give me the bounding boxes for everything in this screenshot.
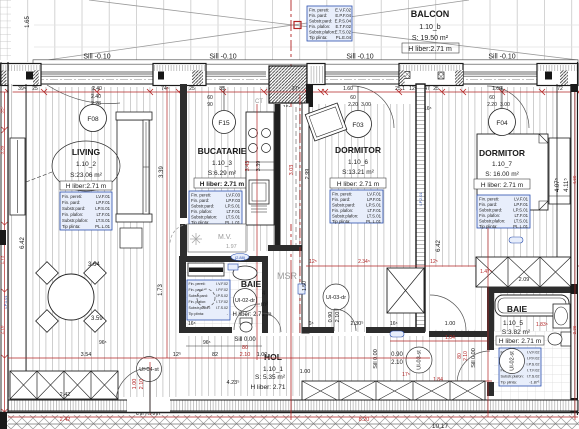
left edge neighbour stubs	[0, 230, 6, 245]
svg-text:6.42: 6.42	[20, 237, 26, 249]
svg-text:74⁵: 74⁵	[161, 86, 169, 92]
svg-text:I.T.F.02: I.T.F.02	[216, 300, 228, 304]
toilet baie left	[240, 318, 252, 324]
svg-text:3.39: 3.39	[256, 161, 262, 172]
living labels	[60, 147, 112, 190]
svg-text:Fin. plafon:: Fin. plafon:	[191, 209, 212, 214]
blue tag baie5 wall	[509, 237, 523, 243]
svg-text:72: 72	[557, 86, 563, 92]
svg-text:10.17: 10.17	[432, 423, 449, 429]
svg-text:Fin. pard:: Fin. pard:	[479, 202, 497, 207]
svg-text:1.00: 1.00	[257, 352, 268, 358]
left red dim chain	[2, 92, 8, 420]
svg-text:Substr.pard:: Substr.pard:	[309, 19, 332, 24]
window circle F04	[489, 109, 516, 136]
svg-text:(2.88): (2.88)	[235, 255, 246, 260]
svg-text:Sill 0.00: Sill 0.00	[234, 337, 256, 343]
svg-text:39⁵: 39⁵	[18, 86, 26, 92]
svg-text:Substr.pard:: Substr.pard:	[332, 203, 355, 208]
svg-text:PL.L.01: PL.L.01	[95, 224, 110, 229]
bottom black dim 10.17	[8, 423, 578, 425]
svg-text:PL.L.01: PL.L.01	[513, 224, 528, 229]
svg-text:35⁵: 35⁵	[0, 106, 5, 113]
svg-text:BUCATARIE: BUCATARIE	[198, 146, 247, 156]
inner wall face line	[0, 83, 578, 85]
side table living	[120, 228, 142, 248]
svg-text:S:13.21 m²: S:13.21 m²	[342, 169, 375, 176]
balcony diagonal brace A	[33, 0, 469, 62]
svg-text:25: 25	[32, 86, 38, 92]
terrace crosshatch band	[0, 415, 579, 429]
svg-text:LP.F.01: LP.F.01	[367, 197, 382, 202]
svg-text:LT.F.01: LT.F.01	[226, 209, 240, 214]
svg-text:1.10_1: 1.10_1	[263, 366, 283, 373]
svg-text:LT.F.01: LT.F.01	[514, 213, 528, 218]
baie walls	[179, 256, 268, 262]
svg-text:I.V.F.02: I.V.F.02	[216, 282, 228, 286]
svg-text:3.03: 3.03	[289, 165, 295, 176]
wall living/kitchen	[180, 84, 187, 218]
finish schedule table dorm6	[330, 190, 383, 224]
svg-text:S: 16.00 m²: S: 16.00 m²	[485, 171, 519, 178]
svg-text:Fin. plafon:: Fin. plafon:	[62, 212, 83, 217]
svg-text:LIVING: LIVING	[72, 147, 101, 157]
wardrobe dorm6	[387, 268, 424, 313]
door tag UI-02-dr	[234, 289, 257, 312]
pier living/kitchen	[153, 64, 206, 86]
window F03 glazing	[325, 72, 399, 76]
svg-text:DORMITOR: DORMITOR	[479, 148, 525, 158]
dorm7 bottom wall	[429, 331, 487, 337]
red dims hol right	[390, 340, 490, 342]
black vertical dim line living/kitchen	[166, 87, 168, 358]
dorm7 balcony door swing	[487, 86, 529, 128]
svg-text:8.20: 8.20	[359, 417, 370, 423]
svg-text:1.73: 1.73	[0, 255, 5, 264]
balcony diagonal brace B	[89, 0, 578, 60]
axis marker square top	[294, 22, 301, 29]
pier corner left	[0, 64, 41, 86]
svg-text:2.10: 2.10	[391, 360, 403, 366]
dresser right wall dorm7	[549, 138, 570, 204]
baie5 door swing	[457, 351, 490, 384]
svg-text:PL.L.01: PL.L.01	[366, 219, 381, 224]
svg-text:4.23⁵: 4.23⁵	[227, 379, 240, 386]
svg-text:LV.F.03: LV.F.03	[226, 193, 240, 198]
svg-text:2.42: 2.42	[60, 417, 71, 423]
svg-text:90: 90	[207, 102, 213, 108]
BALCON label block	[402, 9, 459, 53]
svg-text:m²: m²	[261, 302, 268, 308]
counter drawers	[246, 162, 274, 212]
svg-text:1.10_2: 1.10_2	[76, 161, 96, 168]
MSR closet	[268, 245, 302, 251]
svg-text:S:6.29 m²: S:6.29 m²	[208, 170, 237, 177]
svg-text:82: 82	[212, 352, 218, 358]
door tag UI-03-dr	[323, 284, 349, 310]
svg-text:BAIE: BAIE	[241, 279, 262, 289]
svg-text:F04: F04	[496, 120, 508, 127]
svg-text:E.T.F.02: E.T.F.02	[335, 24, 351, 29]
svg-text:Tip plinta:: Tip plinta:	[501, 381, 517, 385]
svg-text:F15: F15	[218, 120, 230, 127]
svg-text:Substr.platon:: Substr.platon:	[191, 215, 217, 220]
svg-text:Sill 0.00: Sill 0.00	[373, 349, 379, 369]
svg-text:96⁵: 96⁵	[99, 340, 107, 346]
svg-text:3.43: 3.43	[245, 161, 251, 172]
chair NW	[36, 262, 59, 285]
svg-text:Substr.pard:: Substr.pard:	[479, 208, 502, 213]
svg-text:16⁵: 16⁵	[188, 321, 196, 327]
svg-text:2.30⁵: 2.30⁵	[351, 320, 364, 327]
svg-text:F08: F08	[87, 116, 99, 123]
baie right tile floor	[494, 293, 571, 400]
dorm6 door swing	[334, 309, 356, 331]
svg-text:LP.F.01: LP.F.01	[514, 202, 529, 207]
svg-text:Substr.pard:: Substr.pard:	[191, 204, 214, 209]
chair SE	[84, 310, 107, 333]
wall axis dash-dot	[8, 79, 578, 81]
kitchen counter	[246, 112, 274, 225]
finish schedule table balcony	[307, 6, 352, 41]
svg-text:I.P.F.02: I.P.F.02	[527, 357, 539, 361]
svg-text:S: 19.50 m²: S: 19.50 m²	[412, 35, 449, 42]
axis dash-dot dorm6 wall	[299, 95, 301, 335]
window circle F15	[213, 111, 236, 134]
svg-text:27⁵: 27⁵	[292, 86, 300, 92]
svg-text:MSR: MSR	[277, 271, 298, 281]
M.V. niche	[188, 224, 246, 252]
svg-text:H liber:2.71 m: H liber:2.71 m	[66, 183, 106, 190]
svg-text:1.00: 1.00	[445, 321, 456, 327]
msr door swing	[262, 313, 281, 332]
parapet outer line	[0, 63, 578, 65]
bed dorm6 rotated	[305, 103, 347, 141]
leader line F08	[92, 86, 94, 105]
svg-text:BAIE: BAIE	[507, 304, 528, 314]
red vertical dims middle	[290, 260, 292, 420]
svg-text:BALCON: BALCON	[411, 9, 450, 19]
svg-text:Substr.plafon:: Substr.plafon:	[332, 214, 358, 219]
sink baie5	[553, 304, 570, 328]
svg-text:25.1: 25.1	[395, 86, 405, 92]
svg-text:2.99: 2.99	[305, 169, 311, 180]
svg-text:2.20: 2.20	[348, 102, 358, 108]
svg-text:LP.F.03: LP.F.03	[226, 198, 241, 203]
wall stub below pier dorm6	[306, 84, 313, 107]
leader dashes to ellipse	[26, 172, 52, 182]
svg-text:I.T.F.02: I.T.F.02	[527, 369, 539, 373]
kitchen right wall	[275, 104, 281, 250]
right red dim chain	[574, 92, 576, 420]
svg-text:1.00: 1.00	[300, 369, 311, 375]
svg-text:I.T.S.02: I.T.S.02	[527, 375, 540, 379]
svg-text:Substr.pard:: Substr.pard:	[189, 294, 208, 298]
svg-text:Substr.plafon:: Substr.plafon:	[501, 375, 524, 379]
svg-text:Fin. pereti:: Fin. pereti:	[479, 197, 499, 202]
svg-text:H liber:2.71 m: H liber:2.71 m	[408, 46, 452, 53]
svg-text:3.00: 3.00	[361, 102, 371, 108]
door tag UI-04-st	[137, 357, 162, 382]
svg-text:CT: CT	[255, 99, 263, 105]
svg-text:12⁵: 12⁵	[173, 351, 181, 358]
sofa living	[117, 120, 149, 214]
dorm6 labels	[330, 145, 386, 188]
svg-text:1.73: 1.73	[158, 284, 164, 296]
svg-text:LT.S.01: LT.S.01	[226, 215, 241, 220]
svg-text:Fin. plafon:: Fin. plafon:	[309, 24, 330, 29]
svg-text:25: 25	[433, 86, 439, 92]
svg-text:H liber: 2.71: H liber: 2.71	[250, 384, 285, 391]
svg-text:17⁵: 17⁵	[402, 372, 410, 378]
entrance red axis	[149, 362, 151, 418]
chair NE	[84, 262, 107, 285]
washer counter	[188, 263, 224, 276]
svg-text:LP.F.01: LP.F.01	[96, 200, 111, 205]
svg-text:2.10: 2.10	[240, 352, 251, 358]
red ticks	[5, 89, 579, 95]
red dim line 1.84	[415, 380, 492, 382]
wardrobe dorm7 X cells	[476, 257, 571, 287]
hol black dim line	[186, 345, 262, 347]
svg-text:1.04: 1.04	[445, 335, 455, 341]
svg-text:LP.S.01: LP.S.01	[366, 203, 381, 208]
svg-text:PL.E.04: PL.E.04	[336, 35, 352, 40]
svg-text:UI-03-st: UI-03-st	[416, 350, 422, 370]
svg-text:S:23.06 m²: S:23.06 m²	[70, 172, 103, 179]
svg-text:I.T.S.02: I.T.S.02	[216, 306, 228, 310]
svg-text:1.10_6: 1.10_6	[348, 159, 368, 166]
svg-text:LT.S.01: LT.S.01	[96, 218, 111, 223]
svg-text:2.42: 2.42	[60, 392, 71, 398]
svg-text:-1.87⁵: -1.87⁵	[529, 381, 540, 385]
svg-text:S:3.82 m²: S:3.82 m²	[502, 329, 531, 336]
finish schedule table baie left	[187, 280, 230, 320]
svg-text:H liber: 2.71 m: H liber: 2.71 m	[337, 181, 379, 188]
dorm7 labels	[474, 148, 530, 189]
svg-text:2.40: 2.40	[91, 94, 101, 100]
svg-text:1.97: 1.97	[226, 244, 237, 250]
svg-text:LP.1.01: LP.1.01	[3, 295, 8, 309]
svg-text:Fin. plafon:: Fin. plafon:	[479, 213, 500, 218]
living floor	[26, 87, 178, 397]
svg-text:6.42: 6.42	[436, 240, 442, 252]
svg-text:60: 60	[489, 95, 495, 101]
svg-text:DORMITOR: DORMITOR	[335, 145, 381, 155]
svg-text:3.64: 3.64	[88, 262, 100, 268]
svg-text:UI-02-dr: UI-02-dr	[235, 298, 255, 304]
baie door swing	[234, 304, 260, 330]
svg-text:4.60: 4.60	[572, 175, 577, 184]
finish schedule table baie5	[499, 348, 541, 386]
svg-text:LV.F.01: LV.F.01	[96, 194, 110, 199]
axis marker square at wall	[294, 67, 301, 74]
dining table	[48, 274, 94, 320]
svg-text:60: 60	[207, 95, 213, 101]
blue tag wall dorm6	[298, 284, 305, 294]
svg-text:Fin. pard:: Fin. pard:	[332, 197, 350, 202]
label ellipse living	[52, 141, 120, 191]
kitchen sink	[249, 180, 269, 204]
svg-text:1.47⁵: 1.47⁵	[480, 269, 492, 275]
wardrobe row hol	[302, 381, 485, 401]
parapet sill ledge continuous	[33, 60, 578, 64]
svg-text:2.34⁵: 2.34⁵	[358, 259, 370, 265]
svg-text:H liber: 2.71 m: H liber: 2.71 m	[481, 182, 523, 189]
bottom exterior parapet wall	[8, 400, 578, 411]
svg-text:LP.S.01: LP.S.01	[225, 204, 240, 209]
chimney shaft hatched	[269, 66, 307, 103]
right wall inner line	[556, 84, 558, 257]
svg-text:2.10: 2.10	[335, 312, 341, 323]
svg-text:80: 80	[242, 345, 248, 351]
svg-text:3.39: 3.39	[159, 166, 165, 178]
door clear area dorm7	[430, 267, 475, 330]
svg-text:2.40: 2.40	[92, 86, 102, 92]
svg-text:1.00: 1.00	[132, 379, 138, 390]
svg-text:1.10_3: 1.10_3	[212, 160, 232, 167]
window F04 glazing	[463, 72, 537, 76]
dorm7 door swing	[430, 295, 466, 331]
svg-text:1.83⁵: 1.83⁵	[536, 322, 548, 328]
svg-text:2.09: 2.09	[519, 277, 530, 283]
axis line B (red dash-dot)	[290, 0, 292, 260]
stacked red dims below line	[0, 0, 1, 1]
pier corner right	[537, 64, 578, 86]
svg-text:H liber: 2.71 m: H liber: 2.71 m	[200, 181, 245, 188]
pier dorm6/dorm7	[399, 64, 463, 86]
svg-text:E.P.S.04: E.P.S.04	[335, 19, 352, 24]
svg-text:1.50: 1.50	[302, 281, 308, 291]
svg-text:LV.F.01: LV.F.01	[367, 192, 381, 197]
svg-text:0.90: 0.90	[391, 352, 403, 358]
kitchen labels	[194, 146, 250, 188]
finish schedule table living	[60, 192, 112, 230]
hidden edge dashed	[295, 107, 297, 245]
balcony floor grid right	[290, 0, 579, 62]
red dim line hol	[8, 357, 430, 359]
dorm6 bottom wall	[302, 327, 334, 333]
window F15 glazing	[206, 72, 266, 76]
svg-text:LT.S.01: LT.S.01	[367, 214, 382, 219]
svg-text:16⁵: 16⁵	[390, 321, 398, 327]
svg-text:I.P.F.02: I.P.F.02	[216, 288, 228, 292]
bed dorm7	[477, 134, 548, 210]
washing machine baie left	[197, 289, 215, 307]
svg-text:Fin. pard:: Fin. pard:	[191, 198, 209, 203]
svg-text:Sill 0.00: Sill 0.00	[471, 348, 477, 368]
finish schedule table kitchen	[189, 191, 242, 225]
svg-text:1.60: 1.60	[343, 86, 353, 92]
baie5 top wall	[487, 287, 578, 293]
svg-text:I.P.S.02: I.P.S.02	[526, 363, 539, 367]
corridor hatch strip	[281, 107, 302, 224]
pier dorm6 left	[307, 64, 325, 85]
svg-text:1.65: 1.65	[25, 16, 31, 28]
radiator living left wall	[10, 138, 25, 215]
blue tag door baie	[228, 264, 238, 270]
svg-text:60: 60	[350, 95, 356, 101]
svg-text:Substr.plafon:: Substr.plafon:	[309, 30, 335, 35]
toilet baie5	[561, 332, 571, 346]
baie left tile floor	[186, 262, 262, 327]
svg-text:3.00: 3.00	[500, 102, 510, 108]
left wall insulation	[9, 84, 13, 397]
svg-text:3.59: 3.59	[91, 316, 103, 322]
door tag UI-03-st	[406, 347, 432, 373]
neighbour balcony tile grid top-left	[0, 0, 17, 60]
svg-text:12⁵: 12⁵	[430, 259, 438, 265]
svg-text:1.10_5: 1.10_5	[503, 320, 523, 327]
svg-text:2.20: 2.20	[487, 102, 497, 108]
svg-text:Tip plinta:: Tip plinta:	[309, 35, 327, 40]
svg-text:UI-02-st: UI-02-st	[509, 351, 515, 371]
svg-text:12⁵: 12⁵	[309, 259, 317, 265]
MV star symbol	[190, 233, 202, 245]
door tag UI-02-st	[500, 349, 525, 374]
svg-text:M.V.: M.V.	[218, 234, 232, 241]
blue tag 2.88 baie	[231, 254, 249, 261]
left wall outer line	[7, 62, 9, 412]
svg-text:1.60: 1.60	[492, 86, 502, 92]
svg-text:Tip plinta:: Tip plinta:	[189, 312, 204, 316]
dormitor7 floor	[426, 87, 557, 331]
svg-text:2.26: 2.26	[572, 325, 577, 334]
svg-text:Fin. pereti:: Fin. pereti:	[191, 193, 211, 198]
svg-text:Fin. pereti:: Fin. pereti:	[332, 192, 352, 197]
svg-text:Fin. plafon:: Fin. plafon:	[332, 208, 353, 213]
svg-text:LT.F.01: LT.F.01	[367, 208, 381, 213]
svg-text:LV.F.01: LV.F.01	[514, 197, 528, 202]
window F08 glazing	[41, 72, 153, 76]
blue tag hol	[390, 331, 404, 337]
svg-text:Fin. pereti:: Fin. pereti:	[309, 8, 329, 13]
dorm6 right wall (ladder core)	[416, 84, 425, 331]
svg-text:3.54: 3.54	[81, 352, 92, 358]
svg-text:Tip plinta:: Tip plinta:	[332, 219, 350, 224]
svg-text:LT.S.01: LT.S.01	[514, 219, 529, 224]
svg-text:Fin. pereti:: Fin. pereti:	[189, 282, 206, 286]
svg-text:1.10_b: 1.10_b	[419, 24, 441, 31]
svg-text:1.10_7: 1.10_7	[492, 161, 512, 168]
svg-text:UI-03-dr: UI-03-dr	[326, 295, 346, 301]
svg-text:LP.S.01: LP.S.01	[95, 206, 110, 211]
svg-text:LT.F.01: LT.F.01	[96, 212, 110, 217]
svg-text:2.10: 2.10	[139, 379, 145, 390]
svg-text:3.39: 3.39	[0, 145, 5, 154]
bathtub	[495, 295, 569, 316]
chair SW	[36, 310, 59, 333]
kitchen floor lower strip	[246, 224, 302, 251]
balcony faint horizontals	[34, 25, 579, 47]
svg-text:2.10: 2.10	[0, 325, 5, 334]
entrance door swing	[116, 368, 150, 402]
bottom red dim	[8, 416, 578, 418]
red vertical dim kitchen	[256, 104, 258, 360]
svg-text:LP.2.01: LP.2.01	[418, 192, 423, 206]
svg-text:Fin. pard:: Fin. pard:	[62, 200, 80, 205]
svg-text:LP.S.01: LP.S.01	[513, 208, 528, 213]
svg-text:4.07⁵: 4.07⁵	[554, 177, 561, 192]
svg-text:H liber: 2.71 m: H liber: 2.71 m	[499, 338, 541, 345]
svg-text:Substr.pard:: Substr.pard:	[62, 206, 85, 211]
red dims dorm6	[306, 265, 579, 267]
red dim texts on main line	[18, 86, 563, 92]
window circle F08	[80, 105, 107, 132]
svg-text:E.P.F.04: E.P.F.04	[335, 13, 351, 18]
dormitor6 floor	[286, 104, 416, 332]
svg-text:F03: F03	[352, 122, 364, 129]
